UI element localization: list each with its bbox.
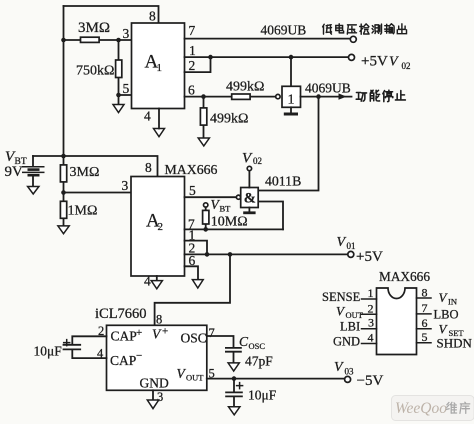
svg-text:1: 1 <box>189 43 196 58</box>
svg-text:LBI: LBI <box>340 320 360 334</box>
svg-text:4: 4 <box>144 274 151 289</box>
svg-text:2: 2 <box>189 58 196 73</box>
svg-text:SENSE: SENSE <box>322 290 361 304</box>
svg-text:499kΩ: 499kΩ <box>210 112 248 127</box>
svg-text:1: 1 <box>157 62 163 74</box>
svg-text:6: 6 <box>189 253 196 268</box>
svg-text:OUT: OUT <box>346 310 364 320</box>
svg-text:GND: GND <box>140 376 169 391</box>
svg-text:5: 5 <box>189 183 196 198</box>
svg-text:10MΩ: 10MΩ <box>211 215 248 230</box>
svg-text:02: 02 <box>402 61 411 71</box>
svg-text:5: 5 <box>422 330 428 344</box>
svg-text:8: 8 <box>149 9 156 24</box>
svg-text:5: 5 <box>123 81 130 96</box>
svg-text:OUT: OUT <box>186 373 204 383</box>
svg-text:7: 7 <box>209 326 215 340</box>
svg-text:10μF: 10μF <box>34 344 63 359</box>
svg-text:9V: 9V <box>5 164 24 180</box>
svg-text:8: 8 <box>422 286 428 300</box>
svg-text:7: 7 <box>189 23 196 38</box>
svg-text:1: 1 <box>288 93 295 108</box>
svg-text:CAP: CAP <box>110 353 136 368</box>
svg-text:3: 3 <box>123 26 130 41</box>
svg-text:4: 4 <box>368 331 374 345</box>
svg-text:SHDN: SHDN <box>437 336 473 351</box>
svg-text:10μF: 10μF <box>248 388 277 403</box>
svg-text:iCL7660: iCL7660 <box>95 306 147 322</box>
svg-text:7: 7 <box>422 301 428 315</box>
svg-text:2: 2 <box>158 221 164 233</box>
svg-text:2: 2 <box>98 324 104 338</box>
svg-text:6: 6 <box>422 316 428 330</box>
svg-text:6: 6 <box>188 83 195 98</box>
svg-text:01: 01 <box>347 241 356 251</box>
svg-text:4011B: 4011B <box>265 174 301 189</box>
svg-text:5: 5 <box>209 367 215 381</box>
svg-text:+: + <box>162 326 168 338</box>
svg-text:3MΩ: 3MΩ <box>78 20 110 36</box>
svg-text:OSC: OSC <box>181 331 207 346</box>
svg-text:+5V: +5V <box>356 249 383 265</box>
svg-text:8: 8 <box>156 313 162 327</box>
svg-text:4069UB: 4069UB <box>305 81 351 96</box>
svg-text:1: 1 <box>368 286 374 300</box>
svg-text:WeeQoo: WeeQoo <box>395 400 447 417</box>
svg-text:V: V <box>334 360 344 375</box>
svg-text:−: − <box>136 350 142 362</box>
svg-text:−5V: −5V <box>357 373 384 389</box>
svg-text:4: 4 <box>144 109 151 124</box>
svg-text:3: 3 <box>122 178 129 193</box>
svg-text:02: 02 <box>253 156 262 166</box>
svg-text:IN: IN <box>448 297 457 307</box>
svg-text:LBO: LBO <box>434 308 459 322</box>
svg-text:1MΩ: 1MΩ <box>68 204 98 219</box>
svg-text:3: 3 <box>368 316 374 330</box>
svg-text:V: V <box>337 235 347 250</box>
svg-text:V: V <box>389 55 399 70</box>
svg-text:499kΩ: 499kΩ <box>226 80 264 95</box>
svg-text:4069UB: 4069UB <box>261 23 307 38</box>
svg-text:2: 2 <box>368 301 374 315</box>
svg-text:MAX666: MAX666 <box>165 162 218 177</box>
svg-text:03: 03 <box>345 367 355 377</box>
svg-text:+: + <box>136 327 142 339</box>
svg-text:750kΩ: 750kΩ <box>76 64 114 79</box>
svg-text:C: C <box>239 334 249 349</box>
svg-text:CAP: CAP <box>111 329 137 344</box>
svg-text:3MΩ: 3MΩ <box>70 165 100 180</box>
svg-text:GND: GND <box>333 335 360 349</box>
svg-text:+5V: +5V <box>361 54 388 70</box>
svg-text:8: 8 <box>145 160 152 175</box>
svg-text:47pF: 47pF <box>245 354 273 369</box>
svg-text:OSC: OSC <box>249 341 266 351</box>
svg-text:BT: BT <box>220 204 232 214</box>
svg-text:4: 4 <box>97 347 104 361</box>
svg-text:MAX666: MAX666 <box>379 269 430 284</box>
svg-text:&: & <box>244 191 256 207</box>
svg-text:3: 3 <box>157 390 163 404</box>
